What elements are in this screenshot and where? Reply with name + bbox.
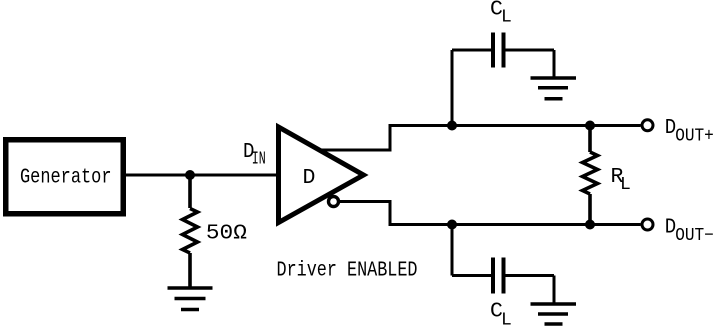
node top-right junction [585, 121, 595, 131]
node top-left junction [447, 121, 457, 131]
node bottom-left junction [447, 220, 457, 230]
generator box [6, 140, 124, 214]
capacitor CL (top) [493, 33, 504, 68]
wire inverting output to bottom rail [340, 202, 641, 225]
inverter bubble [329, 197, 339, 207]
svg-text:L: L [501, 7, 512, 27]
op-amp driver D [279, 127, 364, 223]
resistor 50 ohm [183, 175, 198, 288]
svg-text:IN: IN [252, 149, 266, 169]
node bottom-right junction [585, 220, 595, 230]
wire generator to driver input [126, 174, 280, 177]
svg-text:L: L [501, 310, 512, 327]
svg-text:OUT−: OUT− [675, 226, 714, 246]
svg-text:Generator: Generator [20, 166, 112, 189]
terminal DOUT- [642, 219, 653, 230]
svg-text:50Ω: 50Ω [206, 222, 247, 245]
terminal DOUT+ [642, 120, 653, 131]
ground (top CL) [531, 78, 577, 99]
svg-text:L: L [620, 175, 631, 195]
ground (bottom CL) [531, 304, 577, 324]
wire top rail to capacitor CL (top) [452, 50, 554, 126]
wire bottom rail to capacitor CL (bottom) [452, 225, 554, 305]
capacitor CL (bottom) [493, 258, 504, 294]
svg-text:Driver ENABLED: Driver ENABLED [277, 260, 418, 283]
node junction at 50-ohm tap [185, 170, 195, 180]
ground (50 ohm) [168, 288, 213, 310]
svg-text:OUT+: OUT+ [675, 127, 714, 147]
wire noninverting output to top rail [321, 126, 641, 151]
resistor RL [583, 126, 598, 225]
svg-text:D: D [303, 166, 316, 190]
